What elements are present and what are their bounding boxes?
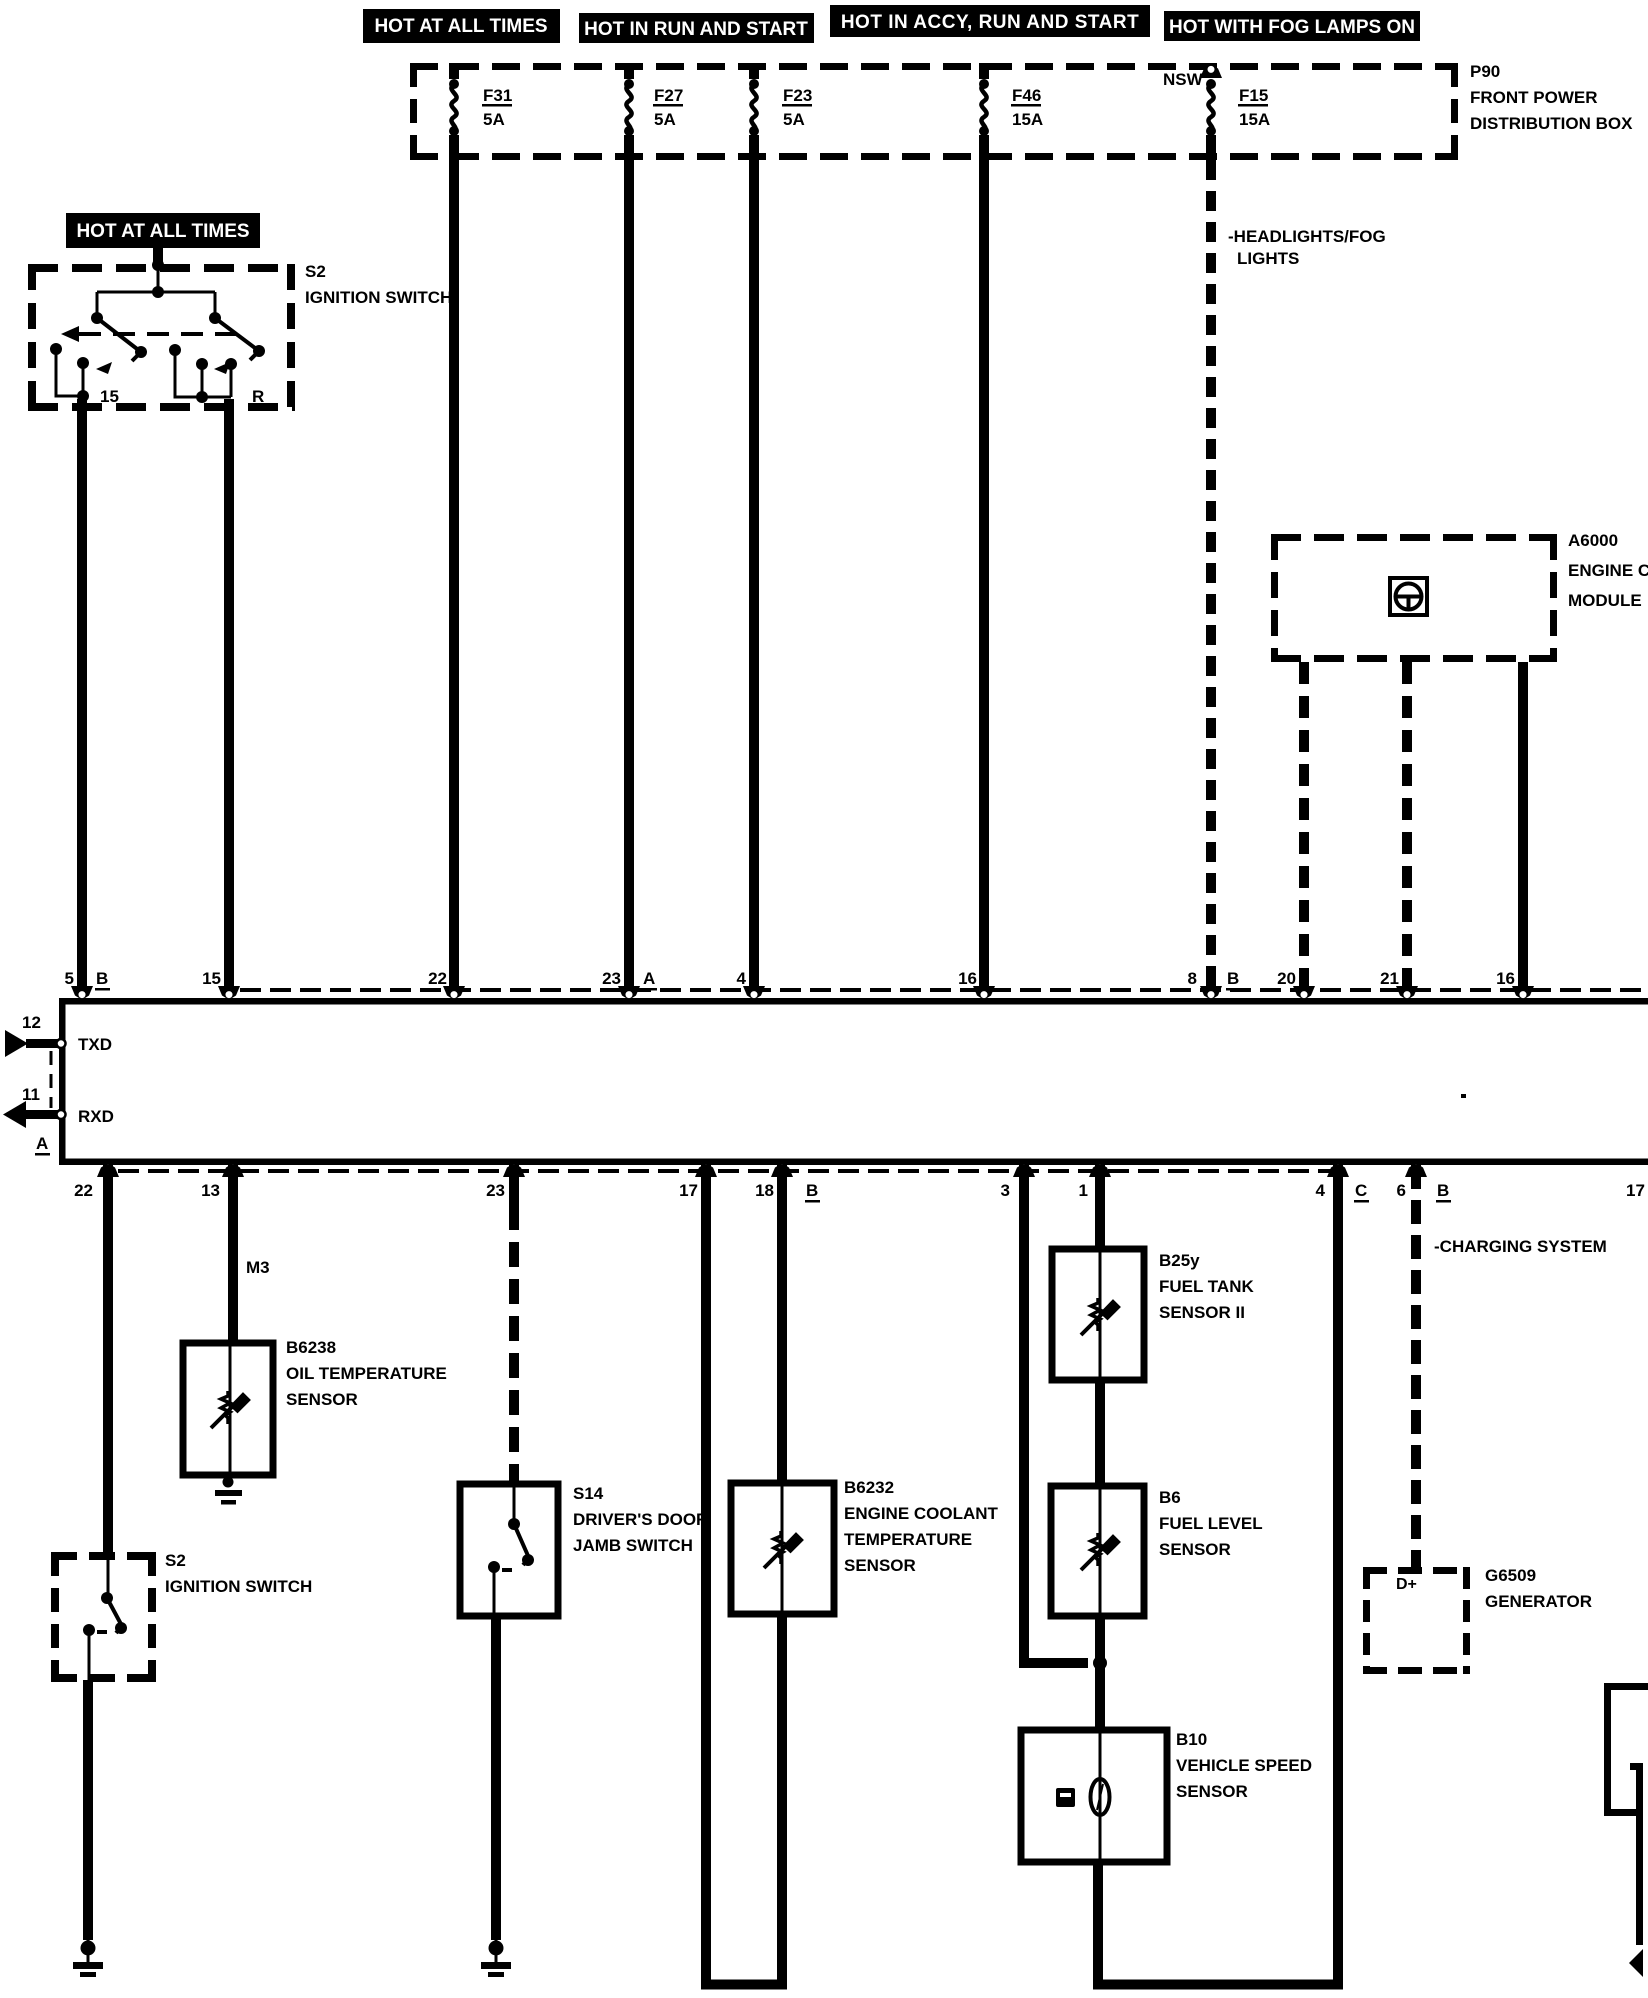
svg-text:15: 15 (100, 387, 119, 406)
pin 15 (202, 969, 240, 998)
pin 8 (1188, 969, 1222, 998)
svg-text:FUEL LEVEL: FUEL LEVEL (1159, 1514, 1263, 1533)
svg-text:B: B (1227, 969, 1239, 988)
pin 13 (201, 1165, 244, 1200)
pin letter A (left) (35, 1134, 50, 1156)
ground below S14 (481, 1940, 511, 1977)
svg-text:8: 8 (1188, 969, 1197, 988)
svg-text:SENSOR: SENSOR (1176, 1782, 1248, 1801)
generator G6509 box (dashed) (1363, 1567, 1470, 1674)
partial box right edge (1604, 1683, 1648, 1816)
svg-text:23: 23 (602, 969, 621, 988)
oil temperature sensor B6238 box (183, 1343, 273, 1475)
svg-text:F15: F15 (1239, 86, 1268, 105)
svg-text:5A: 5A (483, 110, 505, 129)
wire B6 down to junction (1095, 1616, 1105, 1730)
svg-text:22: 22 (74, 1181, 93, 1200)
svg-text:5A: 5A (783, 110, 805, 129)
svg-text:4: 4 (737, 969, 747, 988)
wire F23 to pin 4 (749, 160, 759, 986)
svg-text:FUEL TANK: FUEL TANK (1159, 1277, 1254, 1296)
B6238 label (286, 1338, 447, 1409)
svg-text:SENSOR II: SENSOR II (1159, 1303, 1245, 1322)
svg-text:12: 12 (22, 1013, 41, 1032)
svg-text:5A: 5A (654, 110, 676, 129)
pin 1 (1079, 1165, 1111, 1200)
central module box (59, 998, 1648, 1165)
ignition switch S2 bottom internals (83, 1552, 127, 1680)
engine coolant temperature sensor B6232 box (731, 1483, 834, 1614)
steering wheel icon (1390, 578, 1427, 615)
pin letter C (1354, 1181, 1369, 1203)
svg-text:13: 13 (201, 1181, 220, 1200)
label bar HOT IN RUN AND START (579, 13, 814, 43)
svg-text:HOT AT ALL TIMES: HOT AT ALL TIMES (76, 221, 249, 242)
wire B6232 down (777, 1614, 787, 1984)
pin 23 (602, 969, 640, 998)
wire F27 to pin 23 (624, 160, 634, 986)
svg-text:-CHARGING SYSTEM: -CHARGING SYSTEM (1434, 1237, 1607, 1256)
B25y internals (1081, 1249, 1120, 1380)
label bar HOT WITH FOG LAMPS ON (1164, 11, 1420, 41)
fuse F31 5A (449, 63, 512, 160)
A6000 engine control module box (dashed) (1271, 534, 1557, 662)
svg-text:-HEADLIGHTS/FOG: -HEADLIGHTS/FOG (1228, 227, 1386, 246)
fuel tank sensor II B25y box (1052, 1249, 1144, 1380)
pin 20 (1277, 969, 1315, 998)
wire A6000 to pin 20 (dashed) (1299, 662, 1309, 986)
svg-text:SENSOR: SENSOR (286, 1390, 358, 1409)
fuel level sensor B6 box (1051, 1486, 1144, 1616)
svg-text:OIL TEMPERATURE: OIL TEMPERATURE (286, 1364, 447, 1383)
S2 bottom label (165, 1551, 312, 1596)
svg-text:F27: F27 (654, 86, 683, 105)
svg-text:TEMPERATURE: TEMPERATURE (844, 1530, 972, 1549)
wire S14 to ground (491, 1616, 501, 1940)
svg-text:B6238: B6238 (286, 1338, 336, 1357)
module connector dashed row (bottom) (118, 1169, 1336, 1173)
pin 6 (1397, 1165, 1427, 1200)
wire B25y to B6 (1095, 1380, 1105, 1486)
svg-text:TXD: TXD (78, 1035, 112, 1054)
svg-text:JAMB SWITCH: JAMB SWITCH (573, 1536, 693, 1555)
svg-text:G6509: G6509 (1485, 1566, 1536, 1585)
ignition switch S2 box (dashed) (28, 264, 295, 411)
svg-text:6: 6 (1397, 1181, 1406, 1200)
B10 label (1176, 1730, 1312, 1801)
wire pin22 to S2 ignition switch (103, 1165, 113, 1552)
svg-text:NSW: NSW (1163, 70, 1204, 89)
svg-text:S14: S14 (573, 1484, 604, 1503)
ignition switch S2 (bottom) box dashed (51, 1552, 156, 1682)
svg-text:15A: 15A (1012, 110, 1043, 129)
svg-text:15: 15 (202, 969, 221, 988)
svg-text:S2: S2 (165, 1551, 186, 1570)
svg-text:IGNITION SWITCH: IGNITION SWITCH (165, 1577, 312, 1596)
svg-text:B: B (806, 1181, 818, 1200)
svg-text:B: B (1437, 1181, 1449, 1200)
ignition switch S2 internals (50, 259, 265, 403)
label bar HOT IN ACCY, RUN AND START (830, 5, 1150, 37)
label bar HOT AT ALL TIMES (fuse row) (363, 9, 560, 43)
svg-text:A: A (643, 969, 655, 988)
pin letter A (top) (642, 969, 657, 991)
svg-text:F31: F31 (483, 86, 512, 105)
svg-text:B6232: B6232 (844, 1478, 894, 1497)
B6232 internals (764, 1483, 803, 1614)
pin 22 (428, 969, 465, 998)
svg-text:B10: B10 (1176, 1730, 1207, 1749)
svg-text:22: 22 (428, 969, 447, 988)
wire pin18 to B6232 (777, 1165, 787, 1483)
junction dot (1093, 1656, 1107, 1670)
svg-text:HOT IN ACCY, RUN AND START: HOT IN ACCY, RUN AND START (841, 12, 1139, 33)
wire A6000 to pin 21 (dashed) (1402, 662, 1412, 986)
pin 5 (65, 969, 93, 998)
svg-text:VEHICLE SPEED: VEHICLE SPEED (1176, 1756, 1312, 1775)
wire S2 pinR to module pin 15 (224, 399, 234, 986)
svg-text:R: R (252, 387, 264, 406)
wire pin23 to S14 (solid then dashed) (509, 1165, 519, 1484)
svg-text:1: 1 (1079, 1181, 1088, 1200)
svg-text:11: 11 (22, 1085, 40, 1104)
pin 17 (679, 1165, 717, 1200)
driver's door jamb switch S14 box (460, 1484, 558, 1616)
svg-text:18: 18 (755, 1181, 774, 1200)
svg-text:3: 3 (1001, 1181, 1010, 1200)
pin 22 bottom (74, 1165, 119, 1200)
partial wire with arrow right edge (1629, 1763, 1643, 1977)
svg-text:16: 16 (958, 969, 977, 988)
svg-text:LIGHTS: LIGHTS (1237, 249, 1299, 268)
S2 label (305, 262, 452, 307)
svg-text:SENSOR: SENSOR (1159, 1540, 1231, 1559)
svg-text:15A: 15A (1239, 110, 1270, 129)
wire bar to S2 box (153, 248, 163, 264)
wire F15 to pin 8 (dashed, headlights/fog lights) (1206, 160, 1216, 986)
ground below S2 (73, 1940, 103, 1977)
pin letter B (top right) (1226, 969, 1241, 991)
svg-text:HOT WITH FOG LAMPS ON: HOT WITH FOG LAMPS ON (1169, 17, 1415, 38)
stray dot (1461, 1094, 1466, 1098)
svg-text:DRIVER'S DOOR: DRIVER'S DOOR (573, 1510, 708, 1529)
headlights/fog lights label (1228, 227, 1386, 268)
fuse F46 15A (979, 63, 1043, 160)
wire pin3 down and right to junction (1024, 1165, 1088, 1663)
svg-text:DISTRIBUTION BOX: DISTRIBUTION BOX (1470, 114, 1633, 133)
pin 21 (1380, 969, 1418, 998)
wire pin17 down (701, 1165, 711, 1984)
svg-text:B: B (96, 969, 108, 988)
wire pin1 down through sensors (1095, 1165, 1105, 1249)
P90 front power distribution box (dashed) (410, 63, 1458, 160)
pin 16 right (1496, 969, 1534, 998)
S14 internals (488, 1484, 534, 1616)
svg-text:P90: P90 (1470, 62, 1500, 81)
pin letter B (bottom) (805, 1181, 820, 1203)
svg-text:B25y: B25y (1159, 1251, 1200, 1270)
B25y label (1159, 1251, 1254, 1322)
B6 label (1159, 1488, 1263, 1559)
wire S2 to ground (83, 1680, 93, 1940)
svg-text:GENERATOR: GENERATOR (1485, 1592, 1592, 1611)
ground below B6238 (215, 1477, 242, 1505)
svg-text:C: C (1355, 1181, 1367, 1200)
pin 18 (755, 1165, 793, 1200)
svg-text:A: A (36, 1134, 48, 1153)
svg-text:MODULE: MODULE (1568, 591, 1642, 610)
wire A6000 to pin 16 (1518, 662, 1528, 986)
wire pin6 to generator (dashed) (1411, 1165, 1421, 1567)
wire F31 to pin 22 (449, 160, 459, 986)
svg-text:ENGINE CONTROL: ENGINE CONTROL (1568, 561, 1648, 580)
vehicle speed sensor B10 box (1021, 1730, 1167, 1862)
pin letter B (95, 969, 110, 991)
fuse F23 5A (749, 63, 812, 160)
svg-text:HOT IN RUN AND START: HOT IN RUN AND START (584, 19, 808, 40)
label bar HOT AT ALL TIMES (ignition) (66, 213, 260, 248)
B6238 internals (211, 1343, 250, 1475)
pin 4 (737, 969, 765, 998)
B10 internals (1056, 1730, 1110, 1862)
svg-text:5: 5 (65, 969, 74, 988)
U-link pins 17-18 (701, 1980, 787, 1990)
B6232 label (844, 1478, 999, 1575)
svg-text:20: 20 (1277, 969, 1296, 988)
svg-text:4: 4 (1316, 1181, 1326, 1200)
shield dashes between pin 12 and 11 (50, 1051, 53, 1108)
B6 internals (1081, 1486, 1120, 1616)
S14 label (573, 1484, 708, 1555)
svg-text:FRONT POWER: FRONT POWER (1470, 88, 1598, 107)
pin 16 (958, 969, 995, 998)
RXD arrow pin 11 (3, 1085, 114, 1128)
fuse F27 5A (624, 63, 683, 160)
fuse F15 15A with NSW connector (1200, 66, 1270, 160)
svg-text:HOT AT ALL TIMES: HOT AT ALL TIMES (374, 16, 547, 37)
svg-text:A6000: A6000 (1568, 531, 1618, 550)
svg-text:D+: D+ (1396, 1576, 1417, 1593)
svg-text:F23: F23 (783, 86, 812, 105)
wire S2 pin15 to module pin 5 (77, 399, 87, 986)
wire pin13 to B6238 (228, 1165, 238, 1343)
pin 23 bottom (486, 1165, 525, 1200)
svg-text:17: 17 (679, 1181, 698, 1200)
svg-text:16: 16 (1496, 969, 1515, 988)
svg-text:RXD: RXD (78, 1107, 114, 1126)
svg-text:S2: S2 (305, 262, 326, 281)
pin letter B (bottom right) (1436, 1181, 1451, 1203)
TXD arrow pin 12 (5, 1013, 112, 1057)
svg-text:17: 17 (1626, 1181, 1645, 1200)
svg-text:23: 23 (486, 1181, 505, 1200)
wire F46 to pin 16 (979, 160, 989, 986)
svg-text:21: 21 (1380, 969, 1399, 988)
svg-text:B6: B6 (1159, 1488, 1181, 1507)
svg-text:ENGINE COOLANT: ENGINE COOLANT (844, 1504, 999, 1523)
svg-text:F46: F46 (1012, 86, 1041, 105)
wire pin4 down (1333, 1165, 1343, 1984)
U-link B10 to pin 4 (1093, 1980, 1343, 1990)
wire B10 down (1093, 1862, 1103, 1984)
svg-text:SENSOR: SENSOR (844, 1556, 916, 1575)
svg-text:M3: M3 (246, 1258, 270, 1277)
G6509 label (1485, 1566, 1592, 1611)
svg-text:IGNITION SWITCH: IGNITION SWITCH (305, 288, 452, 307)
pin 4 bottom (1316, 1165, 1349, 1200)
P90 label (1470, 62, 1633, 133)
module connector dashed row (top) (240, 988, 1648, 992)
pin 3 (1001, 1165, 1035, 1200)
A6000 label (1568, 531, 1648, 610)
